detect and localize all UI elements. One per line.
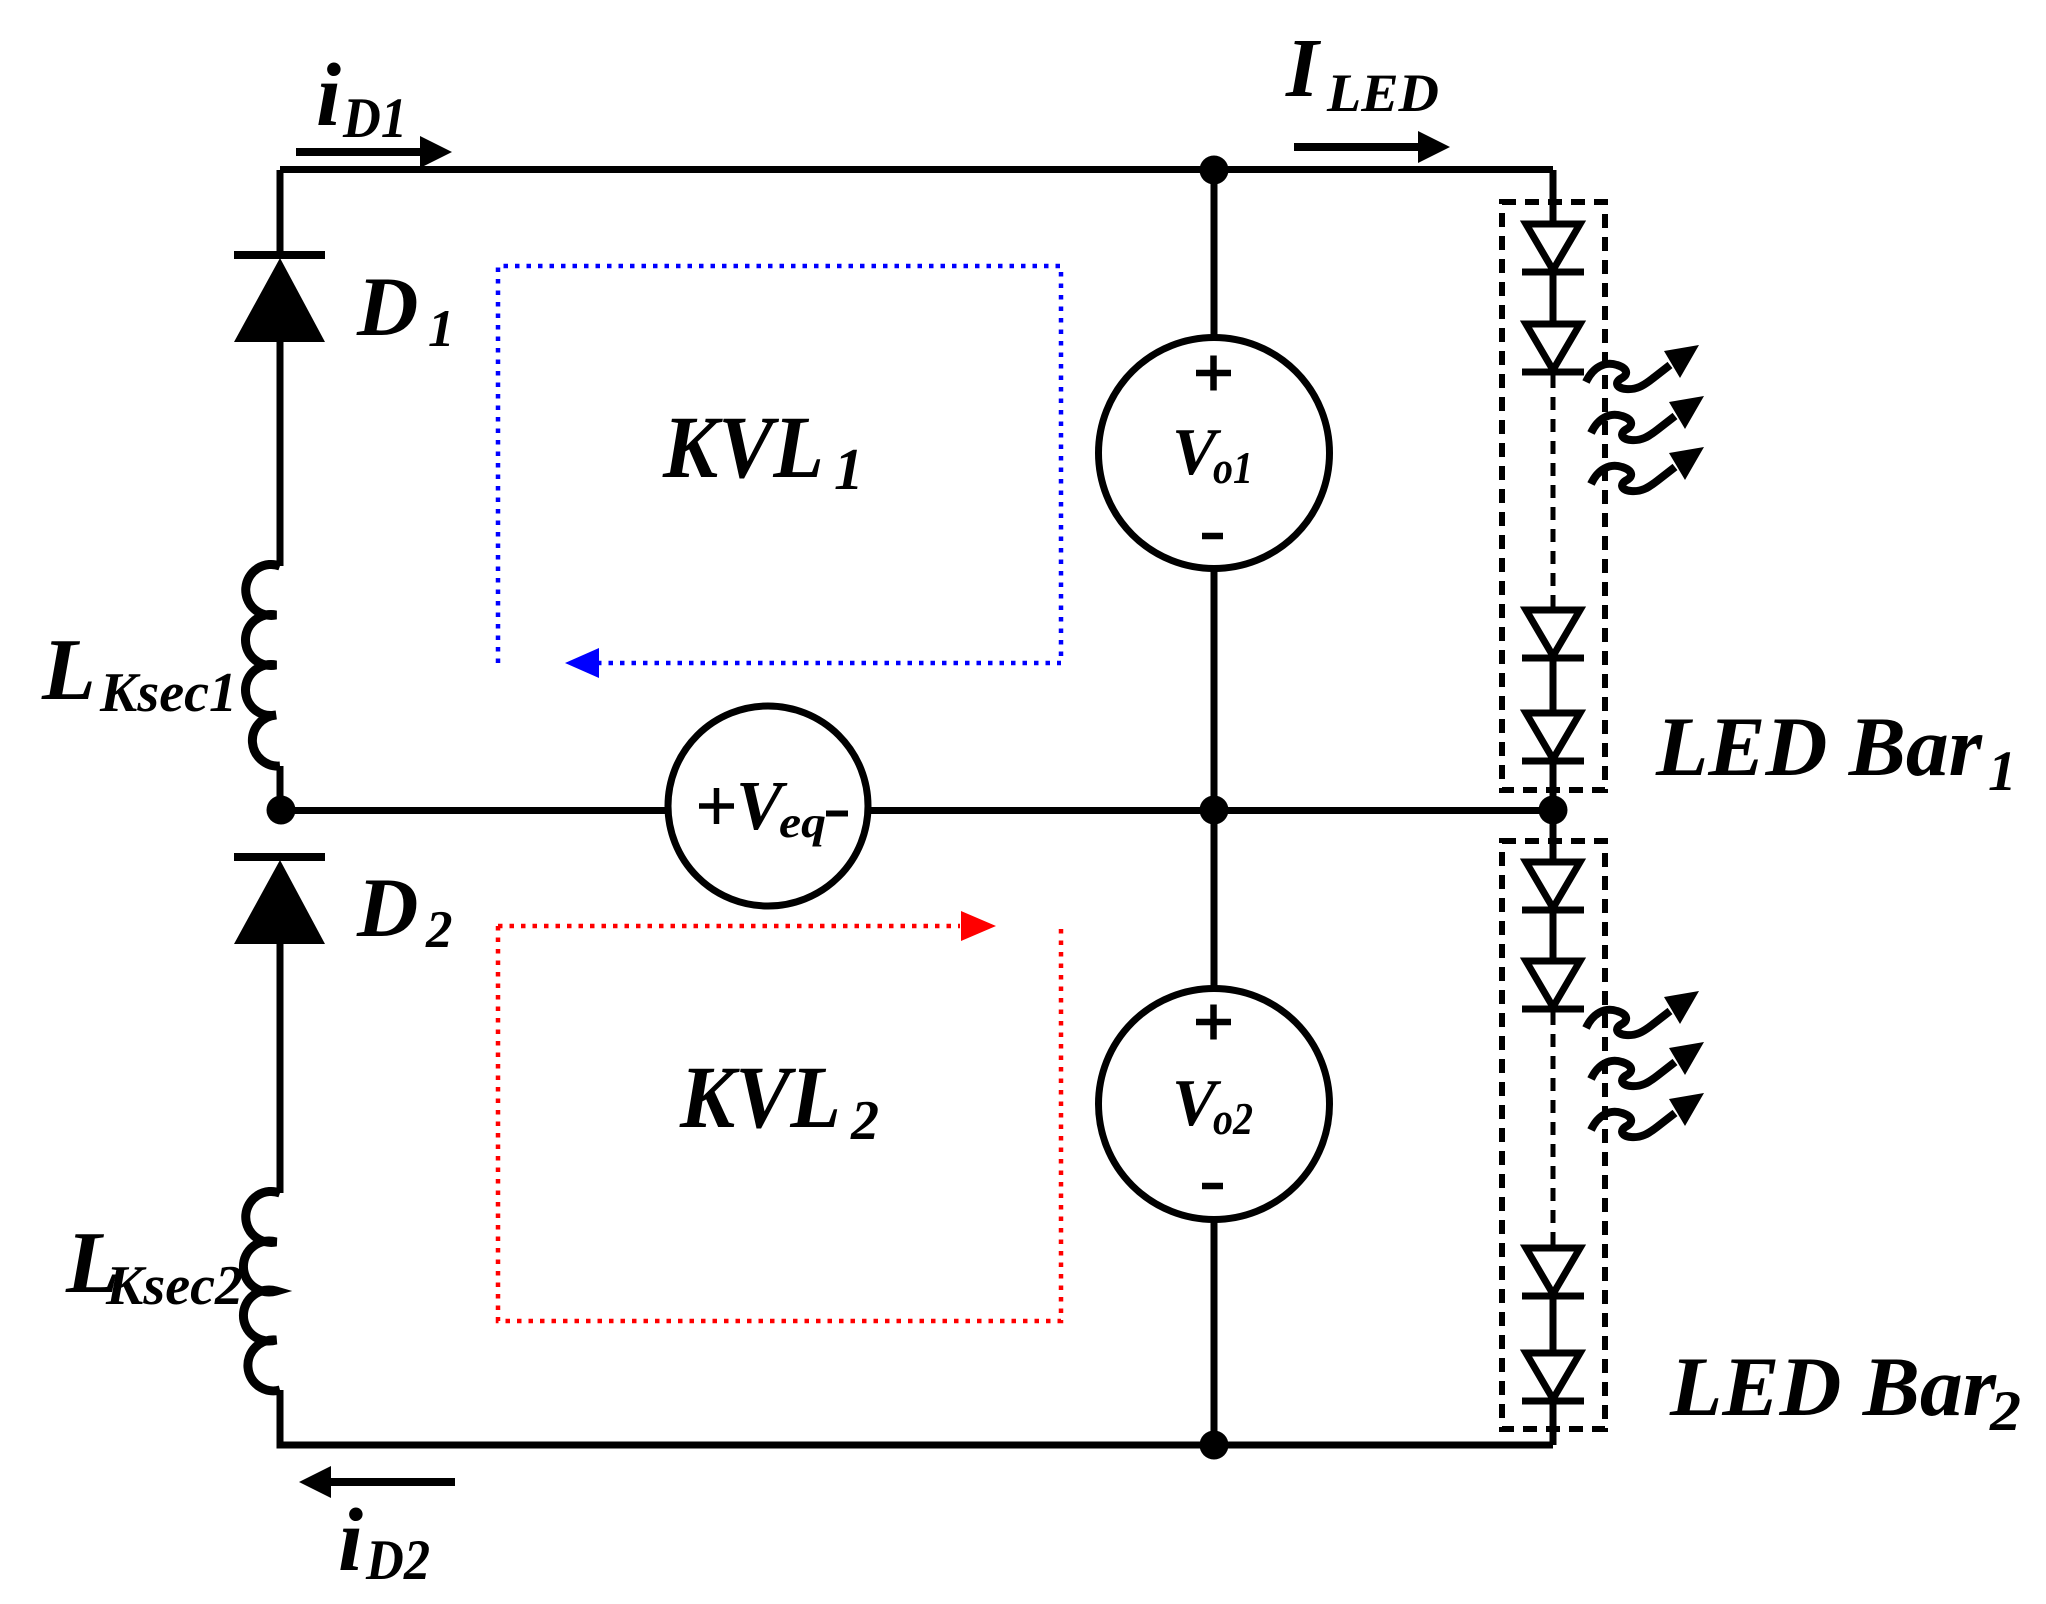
- light ray bar2 b: [1591, 1042, 1704, 1086]
- wire: [1550, 1404, 1557, 1445]
- wire middle right segment: [868, 807, 1553, 814]
- wire Vo2 to bottom: [1211, 1220, 1218, 1445]
- node A (left mid junction): [267, 796, 296, 825]
- svg-text:2: 2: [425, 901, 453, 959]
- light ray bar1 c: [1591, 447, 1704, 491]
- svg-text:Ksec2: Ksec2: [105, 1255, 243, 1317]
- dashed series link bar2: [1551, 1012, 1556, 1248]
- LED D24: [1522, 1353, 1584, 1401]
- inductor LKsec1: [245, 564, 280, 766]
- wire: [1550, 1299, 1557, 1353]
- Vo1 minus: [1202, 533, 1223, 540]
- Veq plus: [699, 788, 734, 824]
- svg-text:1: 1: [834, 436, 864, 502]
- dashed series link bar1: [1551, 375, 1556, 610]
- wire right vertical into LED bar 1: [1550, 170, 1557, 224]
- svg-text:eq: eq: [779, 798, 826, 847]
- LED D21: [1522, 862, 1584, 910]
- wire bottom horizontal: [277, 1442, 1554, 1449]
- svg-text:D: D: [356, 861, 418, 955]
- svg-text:D1: D1: [342, 87, 407, 150]
- wire into bar2: [1550, 810, 1557, 862]
- wire: [1550, 764, 1557, 810]
- wire middle left segment: [281, 807, 668, 814]
- wire inductor2 down to bottom wire: [277, 1390, 284, 1445]
- current arrow iD1: [296, 136, 452, 168]
- wire: [1550, 913, 1557, 961]
- svg-text:D2: D2: [365, 1529, 430, 1592]
- svg-text:Ksec1: Ksec1: [99, 662, 237, 724]
- wire: [1550, 275, 1557, 324]
- KVL2 loop (red dotted): [498, 911, 1061, 1321]
- LED D23: [1522, 1248, 1584, 1296]
- LED D12: [1522, 324, 1584, 372]
- current arrow ILED: [1294, 131, 1450, 163]
- svg-text:D: D: [356, 260, 418, 354]
- wire between D2 and inductor 2: [277, 944, 284, 1193]
- svg-text:o2: o2: [1213, 1093, 1253, 1144]
- wire Vo1 branch top: [1211, 170, 1218, 340]
- node C (mid, LED bar branch): [1539, 796, 1568, 825]
- inductor LKsec2: [243, 1191, 280, 1390]
- svg-text:LED Bar: LED Bar: [1655, 700, 1983, 794]
- source Vo1: [1099, 338, 1330, 569]
- LED D22: [1522, 961, 1584, 1009]
- wire between D1 and inductor: [277, 342, 284, 566]
- wire: [1550, 661, 1557, 713]
- source Vo2: [1099, 989, 1330, 1220]
- LED D13: [1522, 610, 1584, 658]
- svg-text:i: i: [338, 1491, 363, 1590]
- wire Vo2 branch top: [1211, 810, 1218, 990]
- svg-text:2: 2: [1989, 1380, 2021, 1443]
- svg-text:1: 1: [428, 300, 455, 358]
- KVL1 loop (blue dotted): [498, 266, 1061, 678]
- LED D11: [1522, 224, 1584, 272]
- wire Vo1 to mid: [1211, 569, 1218, 810]
- light ray bar2 c: [1591, 1093, 1704, 1137]
- light ray bar1 a: [1586, 345, 1699, 389]
- source Veq: [668, 706, 868, 906]
- svg-text:L: L: [41, 622, 96, 719]
- svg-text:KVL: KVL: [679, 1049, 841, 1147]
- current arrow iD2: [299, 1466, 455, 1498]
- LED bar 2 dashed box: [1502, 841, 1605, 1429]
- svg-text:1: 1: [1988, 740, 2017, 803]
- wire inductor1 to mid node: [277, 766, 284, 810]
- Vo1 plus: [1196, 356, 1231, 391]
- diode D1: [234, 255, 325, 342]
- svg-text:LED: LED: [1326, 63, 1439, 123]
- node B (mid, Vo branch): [1200, 796, 1229, 825]
- light ray bar1 b: [1591, 396, 1704, 440]
- LED bar 1 dashed box: [1502, 202, 1605, 790]
- node E (top wire junction): [1200, 156, 1229, 185]
- svg-text:2: 2: [850, 1090, 879, 1152]
- svg-text:o1: o1: [1213, 442, 1253, 493]
- Vo2 plus: [1196, 1005, 1231, 1040]
- svg-text:I: I: [1285, 22, 1322, 115]
- svg-text:LED Bar: LED Bar: [1669, 1340, 1997, 1434]
- wire top-left vertical down to diode D1: [277, 170, 284, 253]
- svg-text:i: i: [316, 46, 341, 145]
- diode D2: [234, 857, 325, 944]
- Veq minus: [826, 811, 848, 817]
- svg-text:KVL: KVL: [662, 399, 824, 497]
- wire top horizontal: [280, 166, 1553, 173]
- Vo2 minus: [1202, 1183, 1223, 1190]
- LED D14: [1522, 713, 1584, 761]
- node D (bottom, Vo2 branch): [1200, 1431, 1229, 1460]
- light ray bar2 a: [1586, 991, 1699, 1035]
